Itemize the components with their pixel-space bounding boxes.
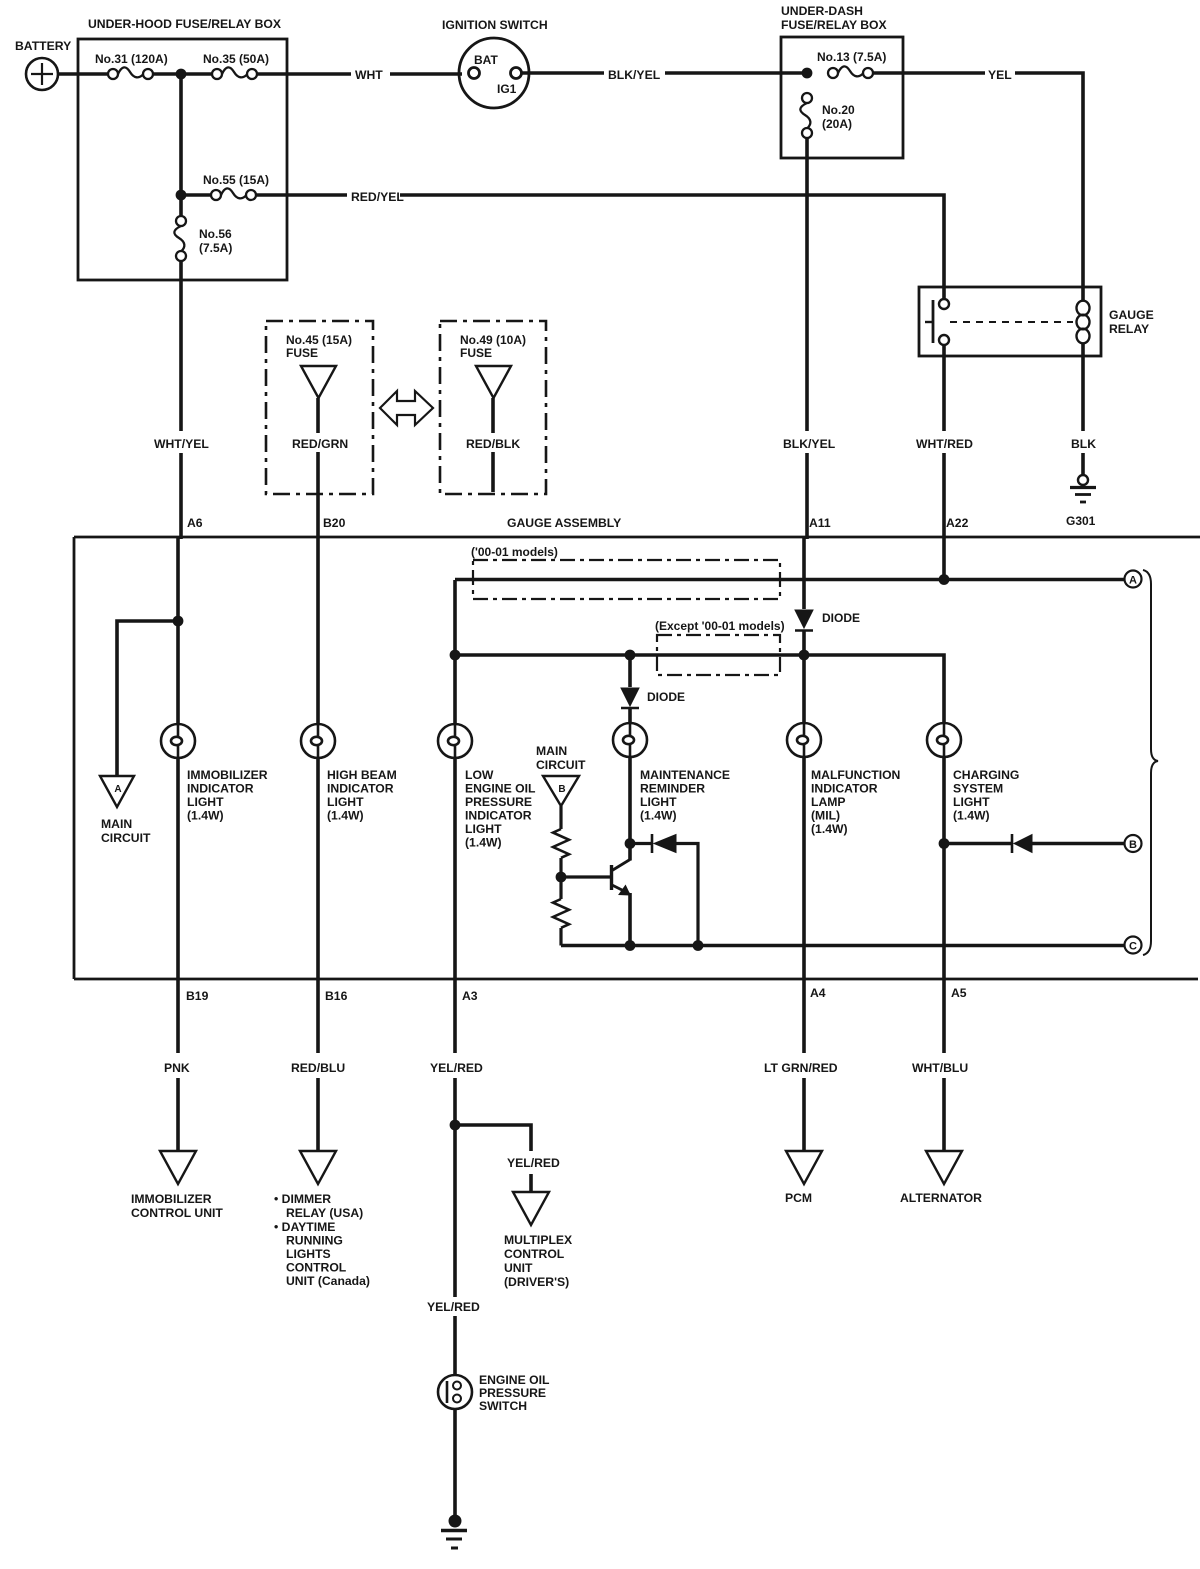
wire net A horizontal <box>455 578 1124 582</box>
svg-text:RELAY (USA): RELAY (USA) <box>286 1206 363 1220</box>
high beam indicator bulb <box>301 724 335 758</box>
wire RED/YEL to gauge relay contact <box>400 195 944 299</box>
wire fuse31 to junction <box>153 72 214 76</box>
wire maintenance branch to diode D2 <box>628 655 632 687</box>
svg-text:UNIT: UNIT <box>504 1261 533 1275</box>
svg-text:CONTROL: CONTROL <box>504 1247 565 1261</box>
svg-text:IMMOBILIZER: IMMOBILIZER <box>131 1192 212 1206</box>
wire diode D2 to maintenance bulb <box>628 708 632 723</box>
junction dot maintenance branch <box>625 650 636 661</box>
svg-text:ENGINE OIL: ENGINE OIL <box>479 1373 550 1387</box>
wire A22 below WHT/RED label into gauge assembly <box>942 453 946 580</box>
svg-text:WHT: WHT <box>355 68 383 82</box>
wire BLK to ground <box>1081 453 1085 475</box>
wire immobilizer bulb to B19 <box>176 758 180 979</box>
wire RED/BLK upper <box>491 398 495 433</box>
svg-text:BAT: BAT <box>474 53 498 67</box>
junction dot main circuit A branch <box>173 616 184 627</box>
svg-text:YEL/RED: YEL/RED <box>427 1300 480 1314</box>
svg-text:UNDER-DASH: UNDER-DASH <box>781 4 863 18</box>
svg-text:LIGHT: LIGHT <box>187 795 224 809</box>
wire A3 mid <box>453 1078 457 1297</box>
ground G301 <box>1070 475 1096 502</box>
svg-text:('00-01 models): ('00-01 models) <box>471 545 558 559</box>
node C circle <box>1125 937 1142 954</box>
svg-text:FUSE: FUSE <box>460 346 492 360</box>
svg-text:A4: A4 <box>810 986 826 1000</box>
svg-text:FUSE: FUSE <box>286 346 318 360</box>
wire triangle B to R1 <box>559 806 562 829</box>
wire A4 lower <box>802 1078 806 1150</box>
gauge relay box <box>919 287 1101 356</box>
node B circle <box>1125 835 1142 852</box>
svg-text:B20: B20 <box>323 516 346 530</box>
junction dot net B <box>939 838 950 849</box>
svg-text:MAIN: MAIN <box>536 744 567 758</box>
wire IG1 to BLK/YEL label <box>522 71 604 75</box>
wire A4 upper <box>802 979 806 1053</box>
wire A22 relay contact down <box>942 345 946 431</box>
svg-text:RED/BLU: RED/BLU <box>291 1061 345 1075</box>
connector triangle dimmer relay <box>300 1151 336 1184</box>
svg-text:DIODE: DIODE <box>647 690 685 704</box>
svg-text:PRESSURE: PRESSURE <box>479 1386 546 1400</box>
svg-text:REMINDER: REMINDER <box>640 782 705 796</box>
junction dot emitter on net C <box>625 940 636 951</box>
high beam wire into box <box>316 537 320 724</box>
svg-text:RED/BLK: RED/BLK <box>466 437 520 451</box>
wire base node to R2 <box>559 877 562 899</box>
svg-text:No.20: No.20 <box>822 103 855 117</box>
MIL bulb <box>787 723 821 757</box>
svg-text:LIGHT: LIGHT <box>465 822 502 836</box>
svg-text:MULTIPLEX: MULTIPLEX <box>504 1233 573 1247</box>
immobilizer wire into box <box>179 537 183 539</box>
maintenance reminder bulb <box>613 723 647 757</box>
svg-text:BATTERY: BATTERY <box>15 39 71 53</box>
connector triangle multiplex <box>513 1192 549 1225</box>
svg-text:GAUGE ASSEMBLY: GAUGE ASSEMBLY <box>507 516 621 530</box>
fuse No.45 symbol <box>301 366 336 398</box>
dash-dot box Except 00-01 <box>657 635 780 675</box>
wire high beam bulb to B16 <box>316 758 320 979</box>
wire A11 into box to diode <box>805 537 809 539</box>
battery <box>26 58 58 90</box>
svg-text:(1.4W): (1.4W) <box>640 809 677 823</box>
svg-text:INDICATOR: INDICATOR <box>811 782 878 796</box>
svg-text:No.56: No.56 <box>199 227 232 241</box>
diode D1 <box>795 610 813 631</box>
main circuit B triangle <box>543 776 579 806</box>
wire RED/BLK lower <box>491 452 495 492</box>
svg-text:A: A <box>114 784 121 795</box>
svg-text:(Except '00-01 models): (Except '00-01 models) <box>655 619 785 633</box>
junction dot collector branch <box>625 838 636 849</box>
wire multiplex branch <box>455 1125 531 1151</box>
svg-text:CIRCUIT: CIRCUIT <box>536 758 586 772</box>
svg-text:PRESSURE: PRESSURE <box>465 795 532 809</box>
svg-text:CHARGING: CHARGING <box>953 768 1019 782</box>
svg-text:• DIMMER: • DIMMER <box>274 1192 331 1206</box>
wire low-oil vertical upper <box>453 580 457 724</box>
svg-text:FUSE/RELAY BOX: FUSE/RELAY BOX <box>781 18 888 32</box>
connector triangle alternator <box>926 1151 962 1184</box>
svg-text:(1.4W): (1.4W) <box>465 836 502 850</box>
wire B19 lower <box>176 1078 180 1150</box>
wire B16 lower <box>316 1078 320 1150</box>
brace right <box>1143 570 1158 955</box>
wire R1 to base node <box>559 858 562 877</box>
svg-text:BLK/YEL: BLK/YEL <box>608 68 661 82</box>
fuse No.31 (120A) <box>108 67 153 79</box>
fuse No.49 symbol <box>476 366 511 398</box>
svg-text:MAINTENANCE: MAINTENANCE <box>640 768 730 782</box>
svg-text:YEL/RED: YEL/RED <box>507 1156 560 1170</box>
svg-text:RED/GRN: RED/GRN <box>292 437 348 451</box>
svg-text:LOW: LOW <box>465 768 494 782</box>
svg-text:YEL/RED: YEL/RED <box>430 1061 483 1075</box>
svg-text:(1.4W): (1.4W) <box>327 809 364 823</box>
low oil pressure bulb <box>438 724 472 758</box>
wire base node to transistor base <box>561 875 611 878</box>
wire diode D1 to net-655 <box>802 630 806 655</box>
svg-text:No.45 (15A): No.45 (15A) <box>286 333 352 347</box>
svg-text:No.31 (120A): No.31 (120A) <box>95 52 168 66</box>
svg-text:LIGHTS: LIGHTS <box>286 1247 331 1261</box>
svg-text:ENGINE OIL: ENGINE OIL <box>465 782 536 796</box>
interchange arrow <box>380 391 433 425</box>
wire B19 upper <box>176 979 180 1053</box>
svg-text:WHT/RED: WHT/RED <box>916 437 973 451</box>
wire RED/GRN to gauge assembly B20 <box>316 452 320 537</box>
svg-text:A5: A5 <box>951 986 967 1000</box>
wire A5 upper <box>942 979 946 1053</box>
svg-text:(1.4W): (1.4W) <box>187 809 224 823</box>
junction dot base node <box>556 872 567 883</box>
svg-text:(1.4W): (1.4W) <box>811 822 848 836</box>
diode D2 <box>621 688 639 708</box>
wire YEL label to corner <box>1015 73 1083 301</box>
svg-text:GAUGE: GAUGE <box>1109 308 1154 322</box>
svg-text:DIODE: DIODE <box>822 611 860 625</box>
wire BLK relay coil down <box>1081 343 1085 431</box>
wire MIL bulb to A4 <box>802 757 806 979</box>
svg-text:B16: B16 <box>325 989 348 1003</box>
wire oil switch to ground <box>453 1409 457 1516</box>
svg-text:MALFUNCTION: MALFUNCTION <box>811 768 900 782</box>
gauge relay link dashed <box>950 321 1073 323</box>
junction dot A22 on net A <box>939 574 950 585</box>
dash-dot box 00-01 models <box>473 560 780 599</box>
wire R2 to net C <box>559 928 562 946</box>
svg-text:IMMOBILIZER: IMMOBILIZER <box>187 768 268 782</box>
wire net B to diode D4 <box>944 842 1012 846</box>
svg-text:RELAY: RELAY <box>1109 322 1149 336</box>
svg-text:INDICATOR: INDICATOR <box>327 782 394 796</box>
wire low oil bulb to A3 <box>453 758 457 979</box>
wire fuse35 to WHT label <box>257 72 351 76</box>
svg-text:CONTROL: CONTROL <box>286 1261 347 1275</box>
under-hood fuse/relay box <box>78 39 287 280</box>
svg-text:No.35 (50A): No.35 (50A) <box>203 52 269 66</box>
node A circle <box>1125 571 1142 588</box>
fuse No.35 (50A) <box>212 67 257 79</box>
svg-text:INDICATOR: INDICATOR <box>465 809 532 823</box>
wire BLK/YEL label to under-dash box <box>665 71 807 75</box>
diode D3 <box>652 834 676 853</box>
resistor R1 <box>553 829 569 858</box>
immobilizer indicator bulb <box>161 724 195 758</box>
wire A11 fuse20 down to gauge assembly <box>805 138 809 431</box>
svg-text:IG1: IG1 <box>497 82 517 96</box>
svg-text:B19: B19 <box>186 989 209 1003</box>
svg-text:YEL: YEL <box>988 68 1012 82</box>
svg-text:B: B <box>558 784 565 795</box>
svg-text:No.49 (10A): No.49 (10A) <box>460 333 526 347</box>
wire emitter down <box>628 893 632 946</box>
svg-text:LT GRN/RED: LT GRN/RED <box>764 1061 838 1075</box>
wire RED/GRN upper <box>316 398 320 433</box>
wire fuse55 junction <box>185 193 213 197</box>
wire collector up to maintenance bulb <box>628 757 632 861</box>
svg-text:LIGHT: LIGHT <box>640 795 677 809</box>
wire B16 upper <box>316 979 320 1053</box>
svg-text:WHT/BLU: WHT/BLU <box>912 1061 968 1075</box>
svg-text:(7.5A): (7.5A) <box>199 241 232 255</box>
svg-text:UNDER-HOOD FUSE/RELAY BOX: UNDER-HOOD FUSE/RELAY BOX <box>88 17 282 31</box>
wire A3 upper <box>453 979 457 1053</box>
wire net-655 to MIL bulb <box>802 655 806 723</box>
wire WHT label to ignition switch <box>390 72 462 76</box>
svg-text:SWITCH: SWITCH <box>479 1399 527 1413</box>
svg-text:No.55 (15A): No.55 (15A) <box>203 173 269 187</box>
svg-text:INDICATOR: INDICATOR <box>187 782 254 796</box>
wire A11 below BLK/YEL label <box>805 453 809 537</box>
svg-text:(20A): (20A) <box>822 117 852 131</box>
svg-text:C: C <box>1129 941 1137 953</box>
wire collector branch to diode D3 <box>630 842 652 845</box>
svg-text:A3: A3 <box>462 989 478 1003</box>
fuse No.55 (15A) <box>211 188 256 200</box>
svg-text:HIGH BEAM: HIGH BEAM <box>327 768 397 782</box>
connector triangle immobilizer control unit <box>160 1151 196 1184</box>
junction dot multiplex branch <box>450 1120 461 1131</box>
svg-text:CIRCUIT: CIRCUIT <box>101 831 151 845</box>
gauge assembly box <box>74 537 1200 979</box>
svg-text:IGNITION SWITCH: IGNITION SWITCH <box>442 18 548 32</box>
svg-text:A22: A22 <box>946 516 969 530</box>
svg-text:PNK: PNK <box>164 1061 190 1075</box>
svg-text:A6: A6 <box>187 516 203 530</box>
svg-text:MAIN: MAIN <box>101 817 132 831</box>
svg-text:SYSTEM: SYSTEM <box>953 782 1003 796</box>
fuse No.45 dash-dot box <box>266 321 373 494</box>
svg-text:UNIT (Canada): UNIT (Canada) <box>286 1274 370 1288</box>
svg-text:PCM: PCM <box>785 1191 812 1205</box>
svg-text:LAMP: LAMP <box>811 795 846 809</box>
junction dot under-dash <box>802 68 813 79</box>
wire diode D3 corner down <box>676 844 698 947</box>
junction dot battery bus <box>176 69 187 80</box>
transistor Q1 <box>612 860 631 896</box>
wire net-655 horizontal <box>455 655 944 724</box>
svg-text:ALTERNATOR: ALTERNATOR <box>900 1191 982 1205</box>
diode D4 <box>1012 834 1032 853</box>
under-dash fuse/relay box <box>781 37 903 158</box>
resistor R2 <box>553 899 569 928</box>
wire fuse13 to YEL label <box>873 71 985 75</box>
svg-text:A: A <box>1129 575 1137 587</box>
svg-text:WHT/YEL: WHT/YEL <box>154 437 209 451</box>
fuse No.20 (20A) <box>800 93 812 138</box>
connector triangle PCM <box>786 1151 822 1184</box>
svg-text:B: B <box>1129 839 1137 851</box>
wire to main circuit A triangle <box>117 621 178 776</box>
wire diode D4 to node B <box>1032 842 1124 846</box>
gauge relay contact <box>925 299 949 345</box>
fuse No.13 (7.5A) <box>828 66 873 78</box>
charging system bulb <box>927 723 961 757</box>
svg-text:BLK: BLK <box>1071 437 1096 451</box>
svg-text:(1.4W): (1.4W) <box>953 809 990 823</box>
ignition switch <box>459 38 529 108</box>
main circuit A triangle <box>100 776 134 807</box>
svg-text:LIGHT: LIGHT <box>327 795 364 809</box>
svg-text:BLK/YEL: BLK/YEL <box>783 437 836 451</box>
wire battery to under-hood box <box>58 72 110 76</box>
wire fuse56 down to WHT/YEL label <box>179 261 183 431</box>
svg-text:CONTROL UNIT: CONTROL UNIT <box>131 1206 223 1220</box>
svg-text:A11: A11 <box>809 516 831 530</box>
wire junction to fuse56 <box>179 78 183 216</box>
svg-text:(MIL): (MIL) <box>811 809 840 823</box>
junction dot net-655 left <box>450 650 461 661</box>
wire A5 lower <box>942 1078 946 1150</box>
engine oil pressure switch <box>438 1375 472 1409</box>
wire net C horizontal <box>561 944 1124 948</box>
svg-text:• DAYTIME: • DAYTIME <box>274 1220 335 1234</box>
wire RED/YEL row <box>256 193 347 197</box>
wire charging bulb down <box>942 757 946 979</box>
junction dot fuse55 <box>176 190 187 201</box>
svg-text:RUNNING: RUNNING <box>286 1234 343 1248</box>
svg-text:(DRIVER'S): (DRIVER'S) <box>504 1275 569 1289</box>
ground engine oil switch <box>441 1515 467 1548</box>
svg-text:LIGHT: LIGHT <box>953 795 990 809</box>
fuse No.56 (7.5A) <box>174 216 186 261</box>
junction dot diode branch on net C <box>693 940 704 951</box>
junction dot A11 on net-655 <box>799 650 810 661</box>
fuse No.49 dash-dot box <box>440 321 546 494</box>
gauge relay coil <box>1077 301 1090 344</box>
wire A6 below WHT/YEL label to gauge assembly <box>179 453 183 537</box>
wire multiplex lower <box>529 1174 533 1191</box>
svg-text:No.13 (7.5A): No.13 (7.5A) <box>817 50 886 64</box>
wire A3 to oil switch <box>453 1316 457 1375</box>
svg-text:G301: G301 <box>1066 514 1096 528</box>
svg-text:RED/YEL: RED/YEL <box>351 190 404 204</box>
